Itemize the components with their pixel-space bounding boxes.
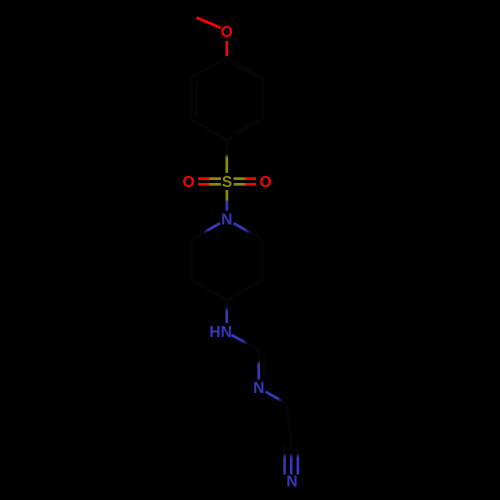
- triple bond C#N line center: [290, 445, 293, 475]
- wire N-CH2 bond: [266, 392, 287, 404]
- benzene double bond inner lines: [232, 64, 257, 79]
- wire CH2-C nitrile bond: [287, 404, 291, 445]
- wire S-N bond: [226, 190, 229, 211]
- wire C4-NH bond: [225, 300, 228, 323]
- triple bond C#N line right: [297, 445, 300, 475]
- double bond CH=N main line: [257, 350, 260, 380]
- wire O-ring bond: [225, 41, 228, 56]
- wire N-C6 piperidine bond right: [234, 223, 262, 239]
- svg-text:N: N: [253, 380, 264, 397]
- double bond CH=N inner line: [263, 355, 266, 376]
- triple bond C#N line left: [283, 445, 286, 475]
- wire ring-S bond: [225, 140, 228, 173]
- svg-text:O: O: [182, 174, 194, 191]
- double bond S=O right: [234, 177, 256, 180]
- svg-text:N: N: [286, 474, 297, 491]
- wire CH3-O bond: [197, 18, 221, 28]
- piperidine ring C-C bonds: [192, 240, 262, 301]
- benzene ring C1-C6: [191, 58, 262, 141]
- double bond S=O left: [198, 177, 221, 180]
- svg-text:O: O: [221, 24, 233, 41]
- wire NH-CH bond: [231, 335, 258, 350]
- wire N-C2 piperidine bond left: [192, 223, 220, 239]
- svg-text:S: S: [222, 174, 232, 191]
- svg-text:HN: HN: [209, 324, 231, 341]
- svg-text:O: O: [259, 174, 271, 191]
- svg-text:N: N: [221, 212, 232, 229]
